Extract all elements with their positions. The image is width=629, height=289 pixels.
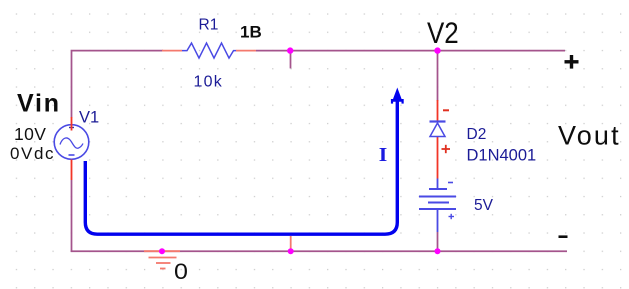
svg-text:R1: R1	[199, 17, 219, 34]
svg-text:V1: V1	[79, 109, 99, 127]
ground 0	[144, 251, 180, 268]
wire: top net from left corner to resistor R1	[72, 51, 164, 118]
junction dot ground	[159, 248, 165, 254]
current loop arrow I	[85, 88, 403, 235]
svg-text:D1N4001: D1N4001	[467, 147, 537, 165]
wire: left vertical below V1 down to bottom net	[71, 180, 73, 252]
wire: bottom ground net	[71, 250, 567, 252]
wire: stub hanging below node 1B	[290, 51, 292, 68]
wire: top net from R1 to node V2 and + terminal	[256, 50, 565, 52]
junction dot node V2	[434, 47, 440, 53]
svg-text:5V: 5V	[474, 197, 494, 214]
svg-text:0: 0	[174, 259, 188, 284]
svg-text:10V: 10V	[14, 124, 46, 144]
svg-text:10k: 10k	[194, 74, 223, 91]
junction dot battery branch	[435, 248, 441, 254]
svg-text:Vout: Vout	[558, 121, 621, 151]
wire: salmon pin stub above bottom net junction	[290, 236, 292, 251]
junction dot node 1B	[287, 47, 293, 53]
polarity plus	[565, 55, 579, 69]
battery 5V	[419, 179, 456, 233]
svg-text:V2: V2	[427, 16, 459, 49]
svg-text:1B: 1B	[240, 23, 262, 42]
svg-text:Vin: Vin	[17, 90, 61, 118]
diode D2	[430, 100, 451, 179]
polarity minus	[559, 235, 568, 238]
svg-text:D2: D2	[467, 126, 487, 143]
svg-text:0Vdc: 0Vdc	[10, 144, 55, 163]
wire: right vertical from battery to bottom net	[437, 232, 439, 252]
voltage source V1	[54, 117, 89, 180]
junction dot stub	[288, 248, 294, 254]
wire: right vertical from V2 node down to diode D2	[437, 51, 439, 101]
svg-text:I: I	[379, 145, 388, 166]
resistor R1	[162, 43, 256, 58]
